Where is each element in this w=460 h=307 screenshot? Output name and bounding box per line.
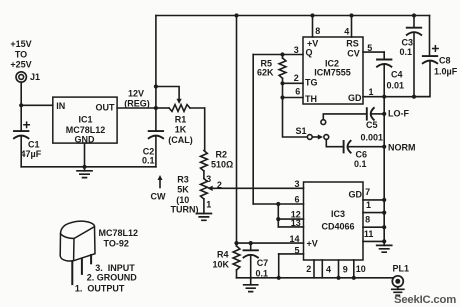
node Q-R5 junction xyxy=(280,52,284,56)
resistor R5 xyxy=(282,55,284,59)
ground symbol C7 xyxy=(244,285,258,292)
svg-text:GD: GD xyxy=(348,93,362,103)
svg-text:Q: Q xyxy=(306,48,313,58)
svg-text:ICM7555: ICM7555 xyxy=(314,68,351,78)
wire R3 to ground xyxy=(203,199,205,214)
svg-text:0.01: 0.01 xyxy=(387,80,405,90)
svg-text:6: 6 xyxy=(294,195,299,205)
ground symbol main xyxy=(84,167,86,171)
wire IC2 pin4 stub xyxy=(351,16,353,38)
svg-text:CD4066: CD4066 xyxy=(321,222,354,232)
svg-text:MC78L12: MC78L12 xyxy=(99,228,139,238)
svg-text:C7: C7 xyxy=(257,258,269,268)
wire C1 to ground bus xyxy=(20,137,22,167)
wire IC3 pin14 line xyxy=(237,242,304,244)
svg-text:10: 10 xyxy=(356,264,366,274)
resistor R2 xyxy=(201,151,208,172)
node R1 wiper tap xyxy=(154,84,158,88)
svg-text:4: 4 xyxy=(326,265,331,275)
node pin12 junction xyxy=(276,217,280,221)
wire IC3 pin11 line xyxy=(363,240,384,242)
svg-text:(10: (10 xyxy=(176,195,189,205)
svg-text:5: 5 xyxy=(294,245,299,255)
switch S1 throw contact LO-F xyxy=(321,120,326,125)
node bus pin5 junction xyxy=(277,276,281,280)
node GD-C4 junction xyxy=(382,95,386,99)
svg-text:0.1: 0.1 xyxy=(142,156,155,166)
node rail-IC2 pin8 tap xyxy=(310,13,314,17)
svg-text:IC1: IC1 xyxy=(78,115,92,125)
svg-text:5K: 5K xyxy=(177,185,189,195)
node bus pin9 junction xyxy=(336,276,340,280)
svg-text:+25V: +25V xyxy=(10,60,31,70)
svg-text:8: 8 xyxy=(365,215,370,225)
svg-text:1: 1 xyxy=(206,199,211,209)
svg-text:5: 5 xyxy=(367,43,372,53)
node pin11 junction xyxy=(382,239,386,243)
wire R1 wiper arm xyxy=(156,87,179,100)
wire IC1 OUT to 12V rail xyxy=(117,107,156,109)
switch S1 pole contact xyxy=(307,135,312,140)
connector PL1 xyxy=(392,276,403,287)
capacitor C8 xyxy=(429,16,431,57)
wire IC3 pin1 line xyxy=(363,212,384,214)
wire R1 to R2 xyxy=(204,108,206,151)
node LO-F xyxy=(382,112,386,116)
svg-text:2: 2 xyxy=(306,264,311,274)
svg-text:SeekIC.com: SeekIC.com xyxy=(394,294,456,306)
wire IC3 pin13 line xyxy=(278,226,303,228)
svg-text:1: 1 xyxy=(366,200,371,210)
wire C2 to ground bus xyxy=(155,137,157,167)
wire IC1 GND lead xyxy=(84,143,86,167)
wire IC3 pin2 stub xyxy=(313,260,315,278)
wire C7 to ground xyxy=(250,256,252,285)
wire IC2 CV line xyxy=(363,51,384,53)
svg-text:CW: CW xyxy=(151,192,166,202)
node pin14 C7 junction xyxy=(249,241,253,245)
svg-text:+15V: +15V xyxy=(10,39,31,49)
svg-text:14: 14 xyxy=(289,234,299,244)
wire IC3 pin12 line xyxy=(278,218,303,220)
svg-text:1.0µF: 1.0µF xyxy=(434,67,458,77)
svg-text:RS: RS xyxy=(346,38,359,48)
wire IC2 Q line xyxy=(253,54,303,56)
svg-text:3. INPUT: 3. INPUT xyxy=(95,263,135,273)
svg-text:C1: C1 xyxy=(28,140,40,150)
potentiometer R1 xyxy=(156,107,169,109)
ground symbol R3 xyxy=(196,214,211,221)
svg-text:R2: R2 xyxy=(216,150,228,160)
svg-text:NORM: NORM xyxy=(388,143,416,153)
node ground bus junction xyxy=(82,165,86,169)
svg-text:OUT: OUT xyxy=(96,103,116,113)
wire J1 to C1 vertical xyxy=(20,82,22,131)
capacitor C4 xyxy=(383,52,385,59)
svg-text:3: 3 xyxy=(294,179,299,189)
svg-text:TG: TG xyxy=(305,78,318,88)
svg-text:13: 13 xyxy=(291,218,301,228)
potentiometer R3 xyxy=(201,179,208,200)
node pin8 junction xyxy=(382,225,386,229)
svg-text:47µF: 47µF xyxy=(21,149,42,159)
ground symbol IC3 right rail xyxy=(383,241,385,245)
wire pin5 to bottom bus xyxy=(278,254,280,278)
svg-text:C4: C4 xyxy=(391,70,403,80)
svg-text:R1: R1 xyxy=(175,115,187,125)
wire 12V rail to IC3 pin14 xyxy=(236,16,238,244)
op IC2 ICM7555 box xyxy=(303,37,363,104)
svg-text:(REG): (REG) xyxy=(124,98,150,108)
svg-text:1K: 1K xyxy=(175,125,187,135)
resistor R4 xyxy=(236,243,238,246)
svg-text:MC78L12: MC78L12 xyxy=(66,125,106,135)
wire LO-F contact to C5 xyxy=(323,114,366,120)
svg-text:1. OUTPUT: 1. OUTPUT xyxy=(75,283,125,293)
svg-text:TO: TO xyxy=(15,50,27,60)
wire IC3 pin5 line xyxy=(279,253,304,255)
wire IC2 Q to IC3 pin6 rail xyxy=(252,55,254,205)
analog switch IC3 CD4066 box xyxy=(304,182,364,260)
wire GD-LO-F-NORM-IC3 right rail xyxy=(383,97,385,242)
wire IC2 pin8 stub xyxy=(312,16,314,38)
svg-text:0.001: 0.001 xyxy=(361,133,384,143)
node bus pin10 junction xyxy=(352,276,356,280)
svg-text:C5: C5 xyxy=(366,120,378,130)
svg-text:4: 4 xyxy=(344,26,349,36)
svg-text:GD: GD xyxy=(349,190,363,200)
svg-text:0.1: 0.1 xyxy=(354,159,367,169)
wire pin6 to pin12 link xyxy=(277,204,279,227)
node pin1 junction xyxy=(382,211,386,215)
node pin14 supply junction xyxy=(234,241,238,245)
svg-text:2. GROUND: 2. GROUND xyxy=(87,273,138,283)
wire ground bus under IC1 xyxy=(21,166,156,168)
wire top 12V distribution rail xyxy=(156,15,430,17)
TO-92 lead 2 xyxy=(81,259,83,274)
capacitor C7 xyxy=(250,243,252,250)
svg-text:R4: R4 xyxy=(217,250,229,260)
node pin6-pin12 junction xyxy=(276,202,280,206)
svg-text:C3: C3 xyxy=(401,37,413,47)
ground symbol PL1 xyxy=(397,287,399,290)
wire 12V vertical rail xyxy=(155,16,157,109)
svg-text:9: 9 xyxy=(343,265,348,275)
node input junction xyxy=(19,103,23,107)
connector J1 xyxy=(16,72,26,82)
svg-text:8: 8 xyxy=(315,26,320,36)
node rail-IC3 supply tap xyxy=(234,13,238,17)
svg-text:IN: IN xyxy=(56,101,65,111)
node 12V REG junction xyxy=(154,106,158,110)
node TG junction xyxy=(280,81,284,85)
svg-text:GND: GND xyxy=(75,135,96,145)
capacitor C1 xyxy=(20,130,22,132)
capacitor C6 xyxy=(343,141,345,152)
svg-text:LO-F: LO-F xyxy=(388,109,409,119)
svg-text:TO-92: TO-92 xyxy=(104,238,129,248)
svg-text:TH: TH xyxy=(305,94,317,104)
wire IC3 pin8 line xyxy=(363,226,384,228)
node NORM xyxy=(382,145,386,149)
svg-text:TURN): TURN) xyxy=(171,205,199,215)
svg-text:0.1: 0.1 xyxy=(256,269,269,279)
voltage regulator IC1 box xyxy=(53,97,117,143)
arrow CW xyxy=(159,179,161,188)
wire IC3 pin4 stub xyxy=(321,260,323,278)
wire C8 to GD bus xyxy=(414,62,430,97)
wire R3 wiper to IC3 pin3 xyxy=(212,187,304,189)
svg-text:J1: J1 xyxy=(30,72,40,82)
TO-92 lead 1 xyxy=(71,261,73,284)
wire NORM contact to C6 xyxy=(326,139,343,146)
svg-text:3: 3 xyxy=(294,45,299,55)
node GD-C3 junction xyxy=(412,95,416,99)
switch S1 arrow xyxy=(313,136,319,138)
capacitor C3 xyxy=(413,16,415,28)
wire IC3 pin9 stub xyxy=(338,260,340,278)
svg-text:S1: S1 xyxy=(296,126,307,136)
node rail-C3 tap xyxy=(412,13,416,17)
wire C3 to GD bus xyxy=(413,34,415,97)
svg-text:11: 11 xyxy=(364,229,374,239)
wire IC2 TG line xyxy=(283,82,304,84)
svg-text:+V: +V xyxy=(307,239,318,249)
capacitor C2 xyxy=(155,108,157,131)
svg-text:6: 6 xyxy=(295,87,300,97)
node pin7 junction xyxy=(382,198,386,202)
svg-text:1: 1 xyxy=(369,87,374,97)
wire input to IC1 IN xyxy=(21,104,53,106)
wire IC3 pin7 line xyxy=(363,199,384,201)
wire IC2 TH line xyxy=(283,97,304,99)
capacitor C5 xyxy=(366,108,368,119)
wire IC3 pin6 line xyxy=(253,203,303,205)
svg-text:510Ω: 510Ω xyxy=(211,160,233,170)
svg-text:10K: 10K xyxy=(212,260,229,270)
svg-text:2: 2 xyxy=(217,180,222,190)
switch S1 throw contact NORM xyxy=(324,135,329,140)
wire TH to S1 xyxy=(283,83,308,137)
svg-text:12V: 12V xyxy=(128,88,144,98)
svg-text:R3: R3 xyxy=(177,175,189,185)
svg-text:PL1: PL1 xyxy=(393,263,410,273)
wire IC3 pin10 stub xyxy=(353,260,355,278)
svg-text:62K: 62K xyxy=(257,67,274,77)
wire bottom output bus xyxy=(237,277,393,279)
svg-text:IC3: IC3 xyxy=(331,209,345,219)
svg-text:(CAL): (CAL) xyxy=(168,135,193,145)
node TH junction xyxy=(280,95,284,99)
wire IC2 GD pin1 line xyxy=(363,96,430,98)
wire R2 to R3 xyxy=(203,171,205,179)
wire C4 to GD bus xyxy=(383,65,385,96)
svg-text:2: 2 xyxy=(294,73,299,83)
node rail-IC2 pin4 tap xyxy=(349,13,353,17)
svg-text:7: 7 xyxy=(365,187,370,197)
TO-92 lead 3 xyxy=(90,255,92,263)
svg-text:3: 3 xyxy=(206,174,211,184)
TO-92 package body xyxy=(60,221,95,261)
svg-text:CV: CV xyxy=(347,48,360,58)
svg-text:0.1: 0.1 xyxy=(399,47,412,57)
svg-text:C8: C8 xyxy=(439,56,451,66)
